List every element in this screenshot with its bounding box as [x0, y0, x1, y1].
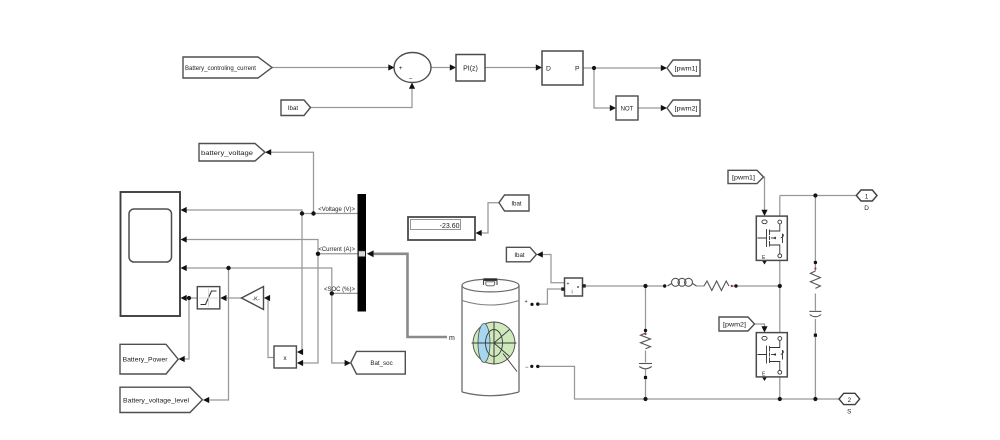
svg-text:[pwm2]: [pwm2] [723, 321, 746, 328]
svg-text:NOT: NOT [621, 107, 634, 113]
svg-text:Ibat: Ibat [288, 105, 299, 112]
svg-text:i: i [571, 290, 572, 296]
svg-text:−: − [525, 365, 529, 371]
svg-text:-K-: -K- [252, 297, 260, 303]
svg-text:[pwm1]: [pwm1] [732, 174, 755, 181]
svg-text:<Current (A)>: <Current (A)> [318, 247, 355, 253]
svg-text:D: D [864, 205, 869, 212]
svg-text:+: + [567, 282, 570, 288]
svg-text:-23.60: -23.60 [440, 223, 460, 230]
svg-text:S: S [847, 409, 851, 416]
svg-text:D: D [546, 66, 551, 73]
svg-text:Ibat: Ibat [514, 252, 525, 259]
svg-text:<SOC (%)>: <SOC (%)> [324, 287, 356, 293]
svg-text:Bat_soc: Bat_soc [370, 360, 392, 367]
svg-text:Battery_Power: Battery_Power [123, 357, 168, 364]
svg-text:Battery_voltage_level: Battery_voltage_level [123, 397, 189, 404]
svg-text:<Voltage (V)>: <Voltage (V)> [318, 207, 355, 213]
svg-text:+: + [399, 65, 403, 72]
svg-text:Ibat: Ibat [511, 200, 522, 207]
svg-text:[pwm2]: [pwm2] [675, 106, 698, 113]
svg-text:1: 1 [865, 193, 869, 200]
svg-text:m: m [449, 335, 455, 342]
svg-text:[pwm1]: [pwm1] [675, 66, 698, 73]
svg-text:−: − [409, 76, 413, 83]
svg-text:battery_voltage: battery_voltage [201, 150, 254, 157]
svg-text:Battery_controling_current: Battery_controling_current [185, 65, 256, 72]
svg-text:PI(z): PI(z) [463, 65, 478, 72]
svg-text:+: + [525, 299, 528, 305]
svg-text:P: P [575, 66, 580, 73]
svg-text:2: 2 [848, 397, 852, 404]
